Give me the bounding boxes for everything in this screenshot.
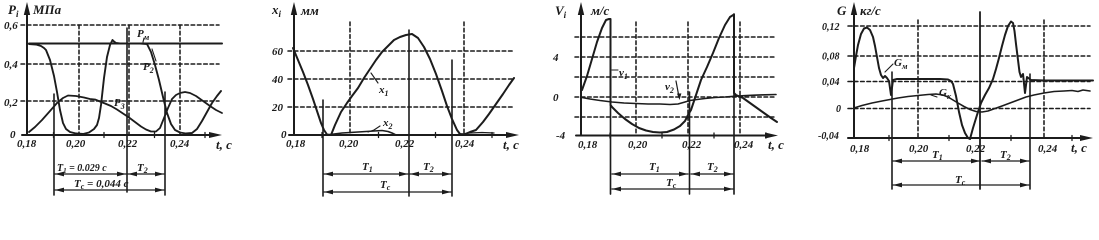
grid h 0.2 bbox=[21, 100, 219, 102]
boundary line T1/T2 bbox=[408, 30, 410, 196]
leader Pm bbox=[143, 38, 144, 42]
curve x2 bbox=[327, 131, 396, 136]
x minor ticks bbox=[321, 133, 323, 138]
leader Gk bbox=[931, 95, 937, 97]
svg-text:0,18: 0,18 bbox=[17, 138, 37, 150]
curve v1 bbox=[582, 15, 777, 133]
curve Pm flat bbox=[29, 43, 222, 45]
v2 pointer bbox=[676, 81, 679, 97]
T2 arrow bbox=[691, 173, 733, 175]
x axis bbox=[576, 135, 770, 137]
svg-text:0,24: 0,24 bbox=[170, 138, 190, 150]
grid h 0 bbox=[848, 108, 1090, 110]
grid v 0.20 bbox=[78, 25, 80, 135]
boundary line cycle end bbox=[451, 60, 453, 196]
svg-text:0,20: 0,20 bbox=[628, 139, 648, 151]
svg-text:0,18: 0,18 bbox=[286, 138, 306, 150]
grid v 0.24 bbox=[463, 22, 465, 135]
Tc arrow bbox=[893, 184, 1029, 186]
svg-text:Gм: Gм bbox=[894, 57, 908, 71]
svg-text:0,22: 0,22 bbox=[966, 143, 986, 155]
grid v 0.20 bbox=[917, 20, 919, 138]
svg-text:0: 0 bbox=[836, 104, 841, 115]
grid h 4 bbox=[575, 56, 776, 58]
grid h 0 bbox=[575, 96, 776, 98]
svg-text:0,20: 0,20 bbox=[909, 143, 929, 155]
grid v 0.24 bbox=[179, 25, 181, 135]
T2 arrow bbox=[128, 173, 164, 175]
boundary line t=0.19 bbox=[53, 94, 55, 195]
curve Gm bbox=[854, 22, 1093, 140]
svg-text:0: 0 bbox=[553, 92, 559, 104]
Tc arrow bbox=[324, 191, 451, 193]
grid h 0.04 bbox=[848, 81, 1090, 83]
svg-text:T2: T2 bbox=[707, 161, 718, 174]
svg-text:60: 60 bbox=[272, 46, 284, 58]
svg-text:v1: v1 bbox=[619, 67, 628, 81]
boundary line cycle end bbox=[1029, 74, 1031, 189]
grid h 6 bbox=[575, 36, 776, 38]
curve Gk bbox=[854, 90, 1090, 112]
Tc arrow bbox=[55, 189, 164, 191]
svg-text:40: 40 bbox=[271, 74, 284, 86]
grid h 40 bbox=[288, 78, 514, 80]
svg-text:20: 20 bbox=[271, 102, 284, 114]
grid h 0.4 bbox=[21, 63, 219, 65]
x minor ticks bbox=[53, 133, 55, 138]
curve x2 cycle2 bbox=[458, 133, 494, 135]
curve P3 bbox=[29, 92, 222, 132]
svg-text:t, с: t, с bbox=[503, 137, 519, 152]
svg-text:Vi: Vi bbox=[555, 3, 567, 20]
svg-text:0,6: 0,6 bbox=[4, 20, 18, 32]
svg-text:T1: T1 bbox=[362, 161, 373, 174]
T1 arrow bbox=[612, 173, 688, 175]
svg-text:v2: v2 bbox=[665, 81, 674, 95]
svg-text:Gк: Gк bbox=[939, 87, 952, 101]
svg-text:P2: P2 bbox=[143, 61, 154, 75]
grid v 0.24 bbox=[739, 22, 741, 136]
svg-text:T2: T2 bbox=[137, 162, 148, 175]
T2 arrow bbox=[410, 173, 451, 175]
svg-text:0,20: 0,20 bbox=[66, 138, 86, 150]
boundary line T1/T2 bbox=[689, 92, 691, 194]
svg-text:x1: x1 bbox=[378, 84, 389, 98]
svg-text:0,22: 0,22 bbox=[682, 139, 702, 151]
grid h 0.08 bbox=[848, 55, 1090, 57]
svg-text:t, с: t, с bbox=[768, 137, 784, 152]
boundary line t=0.19 bbox=[322, 100, 324, 196]
svg-text:t, с: t, с bbox=[1071, 140, 1087, 155]
svg-text:м/с: м/с bbox=[590, 3, 610, 18]
leader P2 bbox=[152, 49, 156, 61]
grid h 0.6 bbox=[21, 24, 219, 26]
svg-text:Tс: Tс bbox=[380, 179, 391, 192]
svg-text:T2: T2 bbox=[423, 161, 434, 174]
y ticks bbox=[851, 25, 857, 27]
svg-text:4: 4 bbox=[552, 52, 559, 64]
boundary line T1/T2 bbox=[979, 12, 981, 189]
svg-text:Pi: Pi bbox=[8, 2, 19, 19]
svg-text:T2: T2 bbox=[1000, 149, 1011, 162]
svg-text:0,24: 0,24 bbox=[734, 139, 754, 151]
y axis bbox=[853, 8, 855, 138]
svg-text:T1: T1 bbox=[932, 149, 943, 162]
T2 arrow bbox=[982, 160, 1029, 162]
svg-text:Tс = 0,044 с: Tс = 0,044 с bbox=[74, 178, 129, 191]
x axis bbox=[22, 134, 215, 136]
y axis bbox=[580, 8, 582, 136]
svg-text:0,4: 0,4 bbox=[4, 59, 18, 71]
curve x1 bbox=[293, 34, 514, 135]
curve P2 bbox=[29, 40, 221, 134]
svg-text:Tс: Tс bbox=[955, 174, 966, 187]
grid v 0.22 bbox=[687, 22, 689, 136]
boundary line T1/T2 bbox=[126, 28, 128, 192]
svg-text:кг/с: кг/с bbox=[860, 3, 881, 18]
svg-text:0,18: 0,18 bbox=[850, 143, 870, 155]
grid h -2 bbox=[575, 116, 776, 118]
svg-text:0,22: 0,22 bbox=[395, 138, 415, 150]
grid v 0.24 bbox=[1043, 20, 1045, 138]
grid v 0.22 bbox=[128, 25, 130, 135]
x axis bbox=[848, 137, 1086, 139]
leader x2 bbox=[368, 126, 380, 132]
y axis bbox=[293, 8, 295, 135]
grid h 60 bbox=[288, 50, 514, 52]
svg-text:T1 = 0.029 с: T1 = 0.029 с bbox=[57, 163, 107, 175]
svg-text:0,22: 0,22 bbox=[118, 138, 138, 150]
T1 arrow bbox=[55, 173, 126, 175]
svg-text:G: G bbox=[837, 3, 847, 18]
x axis bbox=[289, 134, 512, 136]
leader Gm bbox=[885, 64, 893, 72]
svg-text:xi: xi bbox=[271, 2, 282, 19]
x minor ticks bbox=[888, 136, 890, 141]
Tc arrow bbox=[612, 188, 733, 190]
x minor ticks bbox=[609, 133, 611, 138]
svg-text:0,04: 0,04 bbox=[822, 77, 840, 88]
svg-text:Pм: Pм bbox=[137, 28, 150, 42]
svg-text:0: 0 bbox=[10, 129, 16, 141]
svg-text:P3: P3 bbox=[114, 97, 125, 111]
svg-text:-4: -4 bbox=[556, 130, 566, 142]
svg-text:мм: мм bbox=[300, 3, 319, 18]
grid h 0.12 bbox=[848, 25, 1090, 27]
curve v2 bbox=[582, 95, 776, 105]
svg-text:Tс: Tс bbox=[666, 177, 677, 190]
T1 arrow bbox=[893, 160, 980, 162]
grid h 2 bbox=[575, 76, 776, 78]
svg-text:0,08: 0,08 bbox=[822, 52, 840, 63]
svg-text:0,12: 0,12 bbox=[822, 22, 840, 33]
svg-text:0,2: 0,2 bbox=[4, 97, 18, 109]
grid v 0.20 bbox=[349, 22, 351, 135]
svg-text:0,24: 0,24 bbox=[455, 138, 475, 150]
y axis bbox=[26, 8, 28, 135]
boundary line drop1 bbox=[610, 20, 612, 194]
grid h 20 bbox=[288, 106, 514, 108]
boundary line drop2 bbox=[733, 14, 735, 194]
boundary line cycle start bbox=[891, 72, 893, 189]
grid v 0.20 bbox=[635, 22, 637, 136]
leader v1 bbox=[612, 69, 618, 71]
boundary line cycle end bbox=[164, 92, 166, 195]
svg-text:t, с: t, с bbox=[216, 137, 232, 152]
svg-text:МПа: МПа bbox=[32, 2, 62, 17]
svg-text:0,20: 0,20 bbox=[339, 138, 359, 150]
svg-text:0,18: 0,18 bbox=[578, 139, 598, 151]
svg-text:0,24: 0,24 bbox=[1038, 143, 1058, 155]
T1 arrow bbox=[324, 173, 408, 175]
svg-text:-0,04: -0,04 bbox=[818, 131, 839, 142]
svg-text:x2: x2 bbox=[382, 117, 393, 131]
svg-text:T1: T1 bbox=[649, 161, 660, 174]
